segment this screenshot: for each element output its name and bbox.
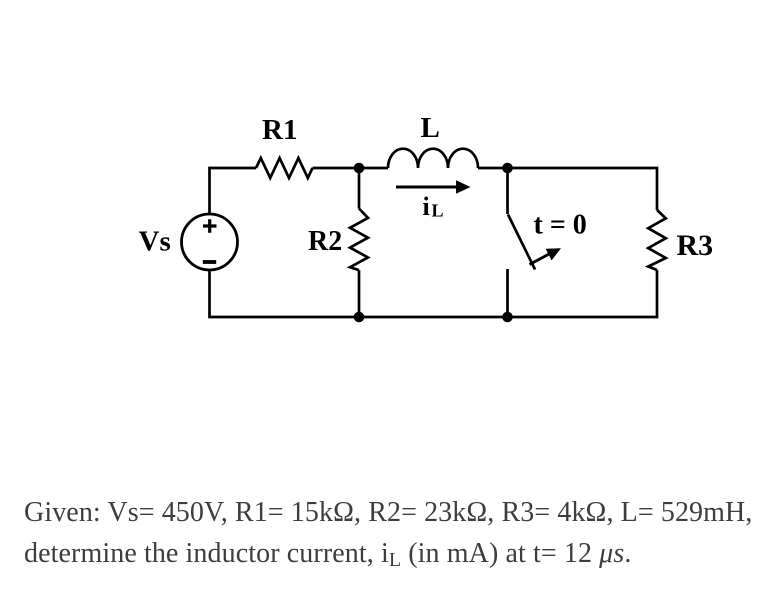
wire bottom rail [208, 316, 658, 319]
voltage source Vs circle [182, 214, 238, 270]
node bottom-left dot (R2 to bottom rail) [354, 312, 365, 323]
wire left vertical bottom [208, 270, 211, 317]
svg-text:L: L [432, 201, 444, 221]
switch top stub [506, 168, 509, 214]
resistor R3 zigzag [648, 210, 666, 270]
inductor L coils [388, 149, 478, 168]
current arrow iL [396, 186, 458, 189]
problem statement line 2 [24, 538, 631, 570]
problem statement line 1 [24, 497, 752, 529]
svg-text:R2: R2 [308, 226, 342, 257]
resistor R2 bottom lead [358, 270, 361, 317]
svg-text:R3: R3 [677, 229, 714, 262]
voltage source plus sign [203, 219, 217, 233]
wire inductor to node B [478, 167, 508, 170]
svg-text:L: L [421, 112, 440, 144]
node bottom-right dot (switch to bottom rail) [502, 312, 513, 323]
wire node B to top-right corner and right vertical top [508, 168, 658, 210]
resistor R1 zigzag [256, 158, 313, 178]
node B dot (top, junction L/switch/R3) [502, 163, 513, 174]
svg-text:t = 0: t = 0 [534, 210, 587, 241]
switch bottom stub [506, 269, 509, 317]
resistor R2 top lead [358, 168, 361, 209]
switch blade (open) [508, 215, 535, 270]
wire left vertical top (source to top rail, with top-left corner) [210, 168, 257, 214]
wire right vertical bottom [656, 270, 659, 317]
svg-text:R1: R1 [262, 114, 297, 146]
wire node A to inductor [359, 167, 388, 170]
voltage source minus sign [203, 260, 216, 264]
node A dot (top, junction R1/R2/L) [354, 163, 365, 174]
svg-text:Vs: Vs [139, 226, 171, 258]
wire R1 to node A [313, 167, 360, 170]
switch actuation arrow [530, 254, 551, 265]
resistor R2 zigzag [350, 209, 368, 271]
svg-text:i: i [423, 192, 430, 221]
